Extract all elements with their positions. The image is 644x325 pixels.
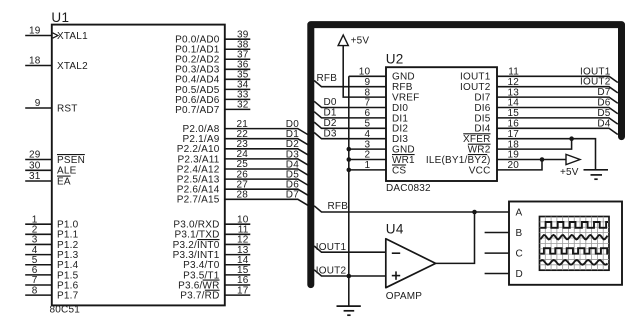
svg-text:C: C	[516, 249, 523, 260]
U1 pin label P2.7/A15	[177, 195, 220, 206]
svg-text:GND: GND	[392, 72, 415, 83]
svg-text:WR2: WR2	[468, 145, 491, 156]
U2 pin number 9	[365, 77, 371, 88]
U1 pin 15 P3.5/T1 wire	[225, 265, 251, 276]
scope input label C	[516, 249, 523, 260]
U1 pin label P3.5/T1	[183, 270, 220, 281]
U1 pin label P2.1/A9	[183, 134, 220, 145]
net IOUT2 wire U2 to bus	[497, 77, 618, 93]
U1 pin label XTAL2	[57, 61, 88, 72]
IC U1 80C51 body	[52, 25, 225, 306]
U2 pin number 11	[508, 67, 519, 78]
svg-text:D0: D0	[324, 97, 337, 108]
U1 pin 12 P3.2/INT0 wire	[225, 235, 251, 246]
U1 pin 5 P1.4 wire	[25, 255, 52, 266]
U1 pin label P3.4/T0	[183, 260, 220, 271]
svg-text:D7: D7	[597, 87, 610, 98]
net D6 wire U2 to bus	[497, 98, 618, 114]
U2 pin label VREF	[392, 93, 419, 104]
svg-text:D3: D3	[324, 128, 337, 139]
svg-text:D4: D4	[597, 118, 610, 129]
U1 pin 2 P1.1 wire	[25, 225, 52, 236]
scope trace 3 (square wave)	[540, 248, 608, 254]
svg-text:IOUT2: IOUT2	[460, 82, 491, 93]
scope screen grid	[540, 217, 610, 271]
U2 pin label DI3	[392, 134, 408, 145]
U4 output wire to node A	[436, 212, 475, 263]
svg-text:D6: D6	[597, 98, 610, 109]
U1 pin 32 P0.7/AD7 wire	[225, 100, 251, 111]
U2 pin label DI6	[474, 103, 490, 114]
svg-text:OPAMP: OPAMP	[386, 291, 423, 302]
svg-text:P0.7/AD7: P0.7/AD7	[175, 105, 220, 116]
svg-text:9: 9	[35, 98, 41, 109]
svg-text:GND: GND	[392, 145, 415, 156]
svg-text:IOUT2: IOUT2	[580, 77, 611, 88]
scope input label D	[516, 269, 523, 280]
svg-text:XFER: XFER	[463, 134, 490, 145]
net +5V wire to U2 pin 8 VREF	[343, 46, 386, 98]
U1 pin label P0.0/AD0	[175, 35, 220, 46]
IC U2 DAC0832 body	[386, 67, 497, 181]
svg-text:DI1: DI1	[392, 113, 408, 124]
U2 pin number 1	[365, 160, 371, 171]
data bus (thick)	[311, 25, 622, 285]
svg-text:WR1: WR1	[392, 155, 415, 166]
U1 pin label ALE	[57, 166, 77, 177]
U1 pin label P0.5/AD5	[175, 85, 220, 96]
svg-text:U1: U1	[51, 10, 69, 25]
U1 pin 39 P0.0/AD0 wire	[225, 29, 251, 40]
svg-text:VREF: VREF	[392, 93, 419, 104]
U2 pin label RFB	[392, 82, 413, 93]
svg-text:P2.7/A15: P2.7/A15	[177, 195, 220, 206]
svg-text:ALE: ALE	[57, 166, 77, 177]
U1 pin label P2.2/A10	[177, 144, 220, 155]
U1 pin label P0.1/AD1	[175, 45, 220, 56]
net IOUT1 wire bus to opamp inverting input	[314, 242, 386, 253]
svg-text:D1: D1	[324, 108, 337, 119]
svg-text:DI7: DI7	[474, 93, 490, 104]
U2 pin number 15	[507, 108, 519, 119]
U1 pin label P2.5/A13	[177, 175, 220, 186]
svg-text:DI6: DI6	[474, 103, 490, 114]
svg-text:CS: CS	[392, 165, 406, 176]
U2 pin number 8	[365, 87, 371, 98]
U1 pin label XTAL1	[57, 31, 88, 42]
svg-text:80C51: 80C51	[50, 305, 81, 316]
U2 pin label IOUT1	[460, 72, 491, 83]
svg-text:IOUT2: IOUT2	[316, 266, 347, 277]
scope input B stub	[485, 232, 509, 234]
U1 pin label P1.2	[57, 240, 79, 251]
U2 pin label CS	[392, 165, 406, 176]
scope trace 4 (sine wave)	[540, 260, 607, 265]
svg-text:RFB: RFB	[392, 82, 413, 93]
U1 pin 30 ALE wire	[25, 161, 52, 172]
svg-text:18: 18	[29, 56, 41, 67]
U1 pin label P2.6/A14	[177, 185, 220, 196]
U2 pin number 16	[507, 119, 519, 130]
U2 pin label DI5	[474, 113, 490, 124]
U1 pin 26 P2.5/A13 wire, net D5 to data bus	[225, 169, 309, 185]
scope trace 2 (sine wave)	[540, 235, 607, 239]
svg-text:RFB: RFB	[328, 201, 349, 212]
svg-text:IOUT1: IOUT1	[316, 242, 347, 253]
U2 pin label ILE(BY1/BY2)	[426, 155, 491, 166]
U1 pin label P1.7	[57, 291, 79, 302]
svg-text:U2: U2	[386, 52, 404, 67]
net D0 wire bus to U2 pin 7 DI0	[314, 97, 386, 108]
U1 pin 35 P0.4/AD4 wire	[225, 70, 251, 81]
svg-text:IOUT1: IOUT1	[580, 66, 611, 77]
svg-text:D: D	[516, 269, 523, 280]
U2 pin label IOUT2	[460, 82, 491, 93]
svg-text:D5: D5	[597, 108, 610, 119]
net D7 wire U2 to bus	[497, 87, 618, 103]
svg-text:B: B	[516, 228, 523, 239]
ground symbol (right)	[584, 170, 609, 179]
svg-text:PSEN: PSEN	[57, 155, 85, 166]
svg-text:30: 30	[29, 161, 41, 172]
U2 pin number 10	[359, 67, 371, 78]
scope screen frame	[540, 217, 610, 271]
U1 pin label P2.4/A12	[177, 164, 220, 175]
U2 pin label WR1	[392, 155, 415, 166]
net D2 wire bus to U2 pin 5 DI2	[314, 118, 386, 129]
U1 pin label P3.0/RXD	[173, 220, 219, 231]
U2 pin 10 GND wire	[349, 75, 386, 77]
U1 pin label P1.4	[57, 260, 79, 271]
net XFER/WR2 wire to ground	[497, 139, 596, 170]
junction IOUT2/ground	[347, 274, 352, 279]
U1 pin label P3.1/TXD	[175, 230, 220, 241]
U2 pin number 18	[507, 139, 519, 150]
ground tie line (GND/WR1/CS to ground)	[348, 76, 350, 306]
U2 pin 3 GND wire	[347, 147, 387, 152]
ground symbol (left)	[337, 306, 361, 315]
net RFB wire bus to scope input A (with opamp output)	[314, 201, 509, 212]
svg-text:DAC0832: DAC0832	[386, 183, 431, 194]
U1 pin 19 XTAL1 wire	[25, 26, 52, 37]
svg-text:D2: D2	[324, 118, 337, 129]
U2 pin number 12	[507, 77, 519, 88]
scope input label A	[516, 208, 523, 219]
U1 pin 27 P2.6/A14 wire, net D6 to data bus	[225, 179, 309, 195]
U1 pin label P3.3/INT1	[173, 250, 220, 261]
junction opamp output / RFB / scope A	[472, 210, 477, 215]
svg-text:XTAL1: XTAL1	[57, 31, 88, 42]
svg-text:VCC: VCC	[469, 165, 491, 176]
svg-text:DI0: DI0	[392, 103, 408, 114]
U4 inverting input marker	[392, 252, 400, 254]
U2 pin 20 VCC wire	[497, 160, 542, 170]
svg-text:+5V: +5V	[560, 167, 579, 178]
U1 pin label P3.7/RD	[180, 290, 219, 301]
U1 pin 34 P0.5/AD5 wire	[225, 80, 251, 91]
U1 pin 25 P2.4/A12 wire, net D4 to data bus	[225, 159, 309, 175]
U2 pin label DI1	[392, 113, 408, 124]
U2 pin 19 ILE wire to +5V	[497, 159, 566, 161]
U1 pin label PSEN	[57, 155, 85, 166]
svg-text:XTAL2: XTAL2	[57, 61, 88, 72]
U2 pin number 2	[365, 150, 371, 161]
U2 pin label GND	[392, 145, 415, 156]
oscilloscope display body	[509, 202, 622, 285]
U2 pin label DI0	[392, 103, 408, 114]
U1 pin label P1.5	[57, 270, 79, 281]
svg-text:29: 29	[29, 150, 41, 161]
U2 pin number 17	[507, 129, 519, 140]
scope trace 1 (square wave)	[540, 222, 608, 228]
U2 pin label DI7	[474, 93, 490, 104]
U2 pin label DI4	[474, 124, 490, 135]
net D5 wire U2 to bus	[497, 108, 618, 124]
svg-text:+5V: +5V	[351, 36, 370, 47]
junction ILE/VCC	[540, 157, 545, 162]
net D1 wire bus to U2 pin 6 DI1	[314, 108, 386, 119]
svg-text:DI5: DI5	[474, 113, 490, 124]
U4 non-inverting input marker	[392, 271, 400, 279]
U1 pin label P0.2/AD2	[175, 55, 220, 66]
svg-text:17: 17	[237, 285, 249, 296]
U2 pin 1 CS wire	[347, 168, 387, 173]
U1 pin 1 P1.0 wire	[25, 214, 52, 225]
power +5V symbol (VREF)	[338, 35, 369, 47]
svg-text:A: A	[516, 208, 523, 219]
U1 pin 28 P2.7/A15 wire, net D7 to data bus	[225, 190, 309, 206]
U1 pin label P0.7/AD7	[175, 105, 220, 116]
U1 pin 16 P3.6/WR wire	[225, 275, 251, 286]
U2 pin label WR2	[468, 144, 491, 155]
U1 pin 23 P2.2/A10 wire, net D2 to data bus	[225, 139, 309, 155]
svg-text:31: 31	[29, 171, 41, 182]
svg-text:U4: U4	[386, 222, 404, 237]
U1 pin 13 P3.3/INT1 wire	[225, 245, 251, 256]
U1 pin 14 P3.4/T0 wire	[225, 255, 251, 266]
U1 pin 11 P3.1/TXD wire	[225, 225, 251, 236]
net D4 wire U2 to bus	[497, 118, 618, 134]
U1 pin 38 P0.1/AD1 wire	[225, 39, 251, 50]
U1 pin 10 P3.0/RXD wire	[225, 214, 251, 225]
U1 pin 33 P0.6/AD6 wire	[225, 90, 251, 101]
net D3 wire bus to U2 pin 4 DI3	[314, 128, 386, 139]
U1 pin 7 P1.6 wire	[25, 275, 52, 286]
net IOUT1 wire U2 to bus	[497, 66, 618, 82]
U1 pin label P1.0	[57, 220, 79, 231]
U1 pin label P1.6	[57, 280, 79, 291]
U1 pin 9 RST wire	[25, 98, 52, 109]
svg-text:ILE(BY1/BY2): ILE(BY1/BY2)	[426, 155, 491, 166]
svg-text:P3.7/RD: P3.7/RD	[180, 291, 219, 302]
svg-text:DI4: DI4	[474, 124, 490, 135]
U2 pin 2 WR1 wire	[347, 157, 387, 162]
scope input D stub	[485, 273, 509, 275]
U1 pin 37 P0.2/AD2 wire	[225, 49, 251, 60]
U2 pin number 19	[507, 150, 519, 161]
U2 pin number 5	[365, 119, 371, 130]
svg-text:D7: D7	[286, 190, 299, 201]
svg-text:8: 8	[32, 285, 38, 296]
svg-text:32: 32	[237, 100, 249, 111]
svg-text:P1.7: P1.7	[57, 291, 79, 302]
U1 pin label P0.6/AD6	[175, 95, 220, 106]
svg-text:DI3: DI3	[392, 134, 408, 145]
U1 pin 17 P3.7/RD wire	[225, 285, 251, 296]
U1 pin 8 P1.7 wire	[25, 285, 52, 296]
U2 pin label XFER	[463, 134, 490, 145]
U1 pin label EA	[57, 176, 71, 187]
power +5V symbol (VCC/ILE)	[560, 154, 580, 178]
U1 pin 24 P2.3/A11 wire, net D3 to data bus	[225, 149, 309, 165]
U1 pin label P1.3	[57, 250, 79, 261]
junction XFER/WR2	[569, 136, 574, 141]
U1 pin 29 PSEN wire	[25, 150, 52, 161]
U1 pin label P2.3/A11	[177, 154, 219, 165]
U1 pin 6 P1.5 wire	[25, 265, 52, 276]
net IOUT2 wire bus to opamp non-inverting input	[314, 266, 386, 277]
U2 pin label GND	[392, 72, 415, 83]
U2 pin number 4	[365, 129, 371, 140]
scope input C stub	[485, 252, 509, 254]
U2 pin number 14	[507, 98, 519, 109]
svg-text:RST: RST	[57, 103, 78, 114]
scope input label B	[516, 228, 523, 239]
U1 pin 31 EA wire	[25, 171, 52, 182]
U1 pin label P2.0/A8	[183, 124, 220, 135]
svg-text:IOUT1: IOUT1	[460, 72, 491, 83]
U1 pin label P0.3/AD3	[175, 65, 220, 76]
XTAL1 clock input arrow	[53, 33, 58, 38]
U1 pin 4 P1.3 wire	[25, 245, 52, 256]
U1 pin 18 XTAL2 wire	[25, 56, 52, 67]
U1 pin 3 P1.2 wire	[25, 235, 52, 246]
svg-text:RFB: RFB	[317, 73, 338, 84]
U2 pin number 7	[365, 98, 371, 109]
svg-text:DI2: DI2	[392, 124, 408, 135]
U1 pin label P1.1	[57, 230, 79, 241]
net RFB wire bus to U2 pin 9	[314, 73, 386, 87]
U1 pin 21 P2.0/A8 wire, net D0 to data bus	[225, 119, 309, 135]
U1 pin label P3.2/INT0	[173, 240, 220, 251]
U2 pin label VCC	[469, 165, 491, 176]
U1 pin 22 P2.1/A9 wire, net D1 to data bus	[225, 129, 309, 145]
U1 pin label RST	[57, 103, 78, 114]
op-amp U4 body	[386, 239, 436, 288]
U2 pin number 3	[365, 139, 371, 150]
U1 pin label P3.6/WR	[178, 280, 219, 291]
svg-text:EA: EA	[57, 176, 71, 187]
svg-text:19: 19	[29, 26, 41, 37]
U2 pin number 13	[507, 87, 519, 98]
U1 pin label P0.4/AD4	[175, 75, 220, 86]
U2 pin number 20	[507, 160, 519, 171]
U2 pin label DI2	[392, 124, 408, 135]
svg-text:28: 28	[236, 190, 248, 201]
U2 pin number 6	[365, 108, 371, 119]
U2 pin 18 WR2 wire	[497, 139, 572, 149]
U1 pin 36 P0.3/AD3 wire	[225, 59, 251, 70]
